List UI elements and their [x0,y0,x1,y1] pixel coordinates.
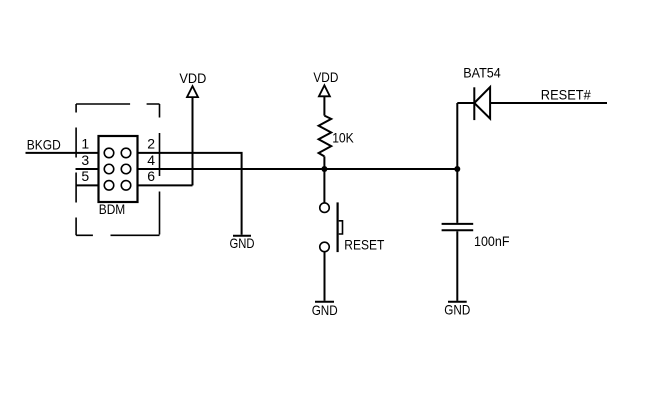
svg-text:4: 4 [147,152,155,168]
svg-text:VDD: VDD [313,69,338,85]
svg-text:GND: GND [230,235,255,251]
svg-text:BKGD: BKGD [27,137,61,153]
svg-text:VDD: VDD [179,70,206,86]
svg-text:RESET: RESET [344,236,384,252]
svg-text:3: 3 [81,152,89,168]
svg-text:GND: GND [444,301,470,317]
svg-text:100nF: 100nF [474,233,510,249]
svg-text:6: 6 [147,168,155,184]
svg-text:2: 2 [147,136,155,152]
svg-text:RESET#: RESET# [541,86,591,102]
svg-text:BAT54: BAT54 [463,64,501,80]
svg-text:10K: 10K [332,130,354,146]
svg-text:1: 1 [81,136,89,152]
svg-text:BDM: BDM [99,201,126,217]
svg-text:5: 5 [81,168,89,184]
svg-text:GND: GND [312,302,338,318]
